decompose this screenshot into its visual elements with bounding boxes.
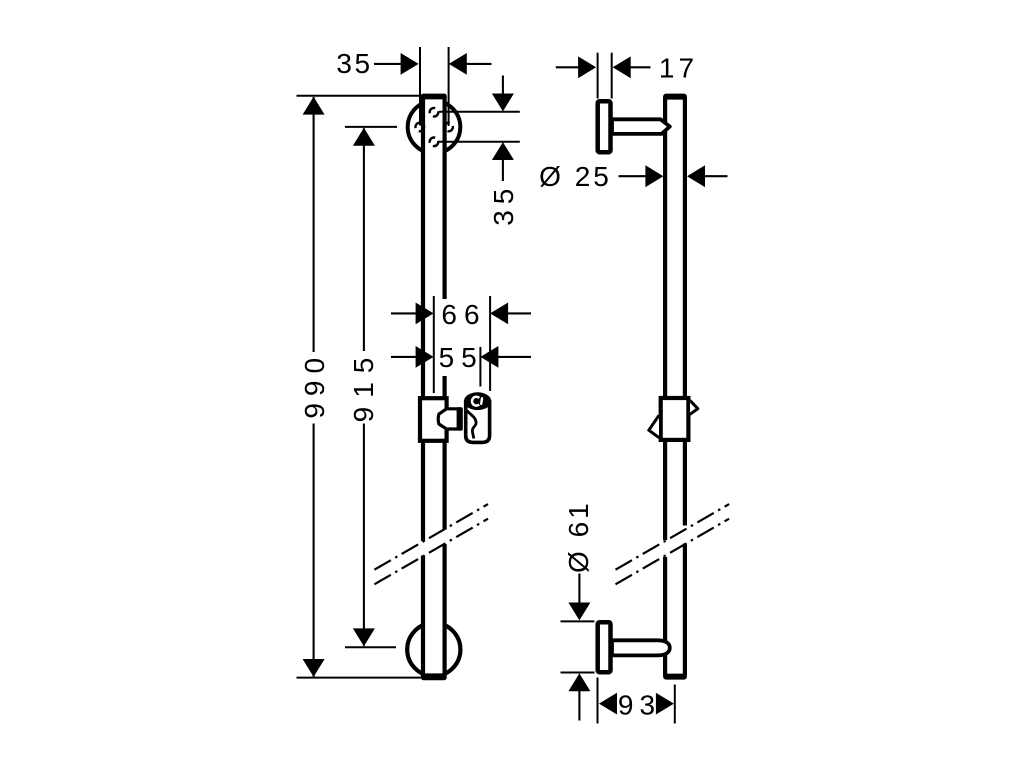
slider body (front view) xyxy=(420,398,447,441)
bottom bracket arm xyxy=(612,640,670,655)
svg-text:Ø 25: Ø 25 xyxy=(539,161,612,192)
dim diameter 25: left arrow xyxy=(619,165,664,187)
dim 990: top extension line xyxy=(297,95,422,97)
break line upper (side view) xyxy=(616,504,730,570)
dim 55: extension line right xyxy=(479,347,481,387)
dim diameter 61: lower arrow and tail xyxy=(568,673,590,720)
dim 35 vertical: extension line lower xyxy=(439,141,520,143)
dim 93: extension line left xyxy=(597,678,599,724)
svg-text:990: 990 xyxy=(299,351,330,419)
dim 55: right arrow xyxy=(480,346,531,368)
dim 93: left arrow xyxy=(599,693,617,715)
grab bar body (front view) xyxy=(421,96,447,676)
dim 17: extension line right xyxy=(611,53,613,99)
dim diameter 61: label xyxy=(563,500,594,573)
dim 17: left arrow and tail xyxy=(556,56,596,78)
dim 93: extension line right xyxy=(674,685,676,724)
svg-text:Ø 61: Ø 61 xyxy=(563,500,594,573)
dim 35 top-left: arrow right side xyxy=(449,53,492,75)
dim 93: label xyxy=(618,689,661,720)
dim 17: right arrow and tail xyxy=(613,56,651,78)
rail body (side view) xyxy=(663,96,687,677)
svg-text:915: 915 xyxy=(348,349,379,423)
dim 35 top-left: label xyxy=(336,48,372,79)
dim 35 top-left: extension line right xyxy=(448,47,450,126)
screw hole bottom xyxy=(430,138,439,147)
dim diameter 25: right arrow xyxy=(687,165,728,187)
dim 990: label xyxy=(299,351,330,419)
dim 93: right arrow xyxy=(656,693,674,715)
svg-text:93: 93 xyxy=(618,689,661,720)
dim 17: label xyxy=(659,53,698,84)
top bracket arm xyxy=(612,119,670,134)
svg-text:55: 55 xyxy=(439,342,484,373)
dim 55: label xyxy=(439,342,484,373)
top wall plate (side view) xyxy=(598,101,611,152)
dim 990: bottom extension line xyxy=(297,677,447,679)
dim 66: left arrow xyxy=(391,303,434,325)
wall flange circle bottom xyxy=(407,623,460,676)
svg-text:35: 35 xyxy=(336,48,372,79)
dim 17: extension line left xyxy=(597,53,599,99)
slider knob left profile xyxy=(649,415,659,437)
slider knob wedge xyxy=(438,407,463,430)
dim diameter 25: label xyxy=(539,161,612,192)
handset holder top ellipse xyxy=(464,392,491,410)
dim 66: right arrow xyxy=(490,303,531,325)
svg-text:35: 35 xyxy=(488,183,519,226)
dim 35 top-left: extension line left xyxy=(419,47,421,126)
rail bottom end cap xyxy=(663,674,687,680)
dim 66: extension line bar centre xyxy=(433,296,435,393)
dim 66: label xyxy=(441,299,486,330)
dim 915: bottom extension line xyxy=(345,646,396,648)
slider body (side view) xyxy=(661,398,689,440)
dim 35 top-left: dimension line left xyxy=(374,53,419,75)
dim 915: top extension line xyxy=(345,126,397,128)
handset holder cylinder xyxy=(466,402,490,442)
dim diameter 61: upper tail and arrow xyxy=(568,574,590,621)
bar bottom end cap xyxy=(421,673,447,680)
bar top end cap xyxy=(421,94,447,100)
dim 66: extension line right xyxy=(489,296,491,391)
dim 915: label xyxy=(348,349,379,423)
svg-text:66: 66 xyxy=(441,299,486,330)
rail top end cap xyxy=(663,94,687,100)
dim 35 vertical: extension line upper xyxy=(439,111,520,113)
dim 990: dimension line xyxy=(303,97,325,677)
break line upper (front view) xyxy=(374,504,488,570)
break line lower (front view) xyxy=(374,519,488,585)
slider knob right profile xyxy=(690,400,698,414)
dim diameter 61: extension line upper xyxy=(561,620,595,622)
svg-text:17: 17 xyxy=(659,53,698,84)
dim diameter 61: extension line lower xyxy=(561,672,595,674)
bottom wall plate (side view) xyxy=(598,622,611,672)
break line lower (side view) xyxy=(616,519,730,585)
dim 55: left arrow xyxy=(391,346,434,368)
dim 35 vertical: label xyxy=(488,183,519,226)
handset holder inner cone line xyxy=(466,410,476,439)
dim 35 vertical: lower arrow and tail xyxy=(492,142,514,181)
dim 915: dimension line xyxy=(353,128,375,647)
wall flange circle top xyxy=(408,101,461,154)
screw hole left xyxy=(416,123,425,132)
screw hole right xyxy=(444,123,453,132)
dim 35 vertical right of flange: upper tail and arrow xyxy=(492,76,514,112)
screw hole top xyxy=(430,108,439,117)
